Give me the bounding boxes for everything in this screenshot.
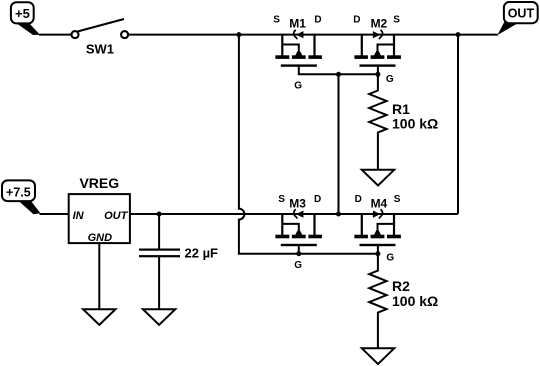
transistor M4 xyxy=(354,209,401,246)
junction node: lower rail to capacitor xyxy=(157,212,162,217)
resistor R1 xyxy=(369,74,386,170)
wire +7.5 to VREG IN xyxy=(40,213,69,215)
switch SW1 xyxy=(72,19,129,38)
wire M4 gate lead xyxy=(377,246,379,254)
ground below capacitor xyxy=(143,309,175,325)
svg-text:S: S xyxy=(393,14,400,25)
svg-text:G: G xyxy=(294,260,302,271)
junction node: M4 gate / R2 top xyxy=(375,251,380,256)
svg-text:VREG: VREG xyxy=(79,175,119,191)
svg-text:D: D xyxy=(314,14,321,25)
svg-text:+7.5: +7.5 xyxy=(6,185,31,199)
svg-text:100 kΩ: 100 kΩ xyxy=(392,293,438,309)
svg-text:G: G xyxy=(294,81,302,92)
net label +7.5 xyxy=(2,180,41,214)
wire M1 gate to M2 gate xyxy=(299,66,378,74)
transistor M2 xyxy=(354,30,401,67)
svg-text:OUT: OUT xyxy=(508,6,535,20)
junction node: top rail to output branch xyxy=(456,32,461,37)
svg-text:22 µF: 22 µF xyxy=(185,246,219,261)
junction node: gate wire to R1 xyxy=(375,72,380,77)
junction node: lower rail to M1/M2 gate wire xyxy=(336,212,341,217)
svg-text:IN: IN xyxy=(73,210,85,222)
svg-text:M2: M2 xyxy=(371,17,388,31)
net label +5 xyxy=(11,2,40,35)
resistor R2 xyxy=(369,254,386,349)
svg-text:D: D xyxy=(355,194,362,205)
ground below VREG xyxy=(83,309,115,325)
svg-text:D: D xyxy=(353,14,360,25)
wire M3 gate lead xyxy=(298,246,300,254)
junction node: top rail to M3/M4 gate dropper xyxy=(236,32,241,37)
svg-text:M4: M4 xyxy=(371,196,388,210)
svg-text:OUT: OUT xyxy=(104,210,129,222)
svg-text:M3: M3 xyxy=(289,196,306,210)
svg-text:S: S xyxy=(273,14,280,25)
wire +5 to SW1 xyxy=(39,34,72,36)
svg-text:G: G xyxy=(386,253,394,264)
junction node: gate wire to lower rail dropper xyxy=(336,72,341,77)
svg-text:GND: GND xyxy=(88,232,113,244)
transistor M1 xyxy=(275,30,322,67)
svg-text:S: S xyxy=(394,194,401,205)
svg-text:M1: M1 xyxy=(289,17,306,31)
capacitor C1 xyxy=(139,214,180,309)
ground below R2 xyxy=(362,348,394,364)
svg-text:100 kΩ: 100 kΩ xyxy=(392,116,438,132)
svg-text:S: S xyxy=(278,194,285,205)
junction node: M3 gate on gate wire xyxy=(296,251,301,256)
svg-text:D: D xyxy=(314,194,321,205)
svg-text:+5: +5 xyxy=(15,6,30,21)
svg-text:SW1: SW1 xyxy=(86,42,114,57)
svg-text:G: G xyxy=(386,74,394,85)
wire M1/M2 gates down to lower rail xyxy=(338,74,340,214)
transistor M3 xyxy=(275,209,322,246)
svg-text:R2: R2 xyxy=(392,278,410,294)
wire top rail SW1 to OUT xyxy=(128,34,498,36)
wire VREG GND to ground xyxy=(98,243,100,309)
wire top-rail dropper to M3/M4 gates (with hop over lower rail) xyxy=(239,35,378,254)
svg-text:R1: R1 xyxy=(392,101,410,117)
ground below R1 xyxy=(362,170,394,186)
wire lower rail VREG OUT to output branch xyxy=(130,213,459,215)
wire output branch (right vertical) xyxy=(457,35,459,214)
voltage regulator VREG box xyxy=(69,194,130,243)
net label OUT xyxy=(498,2,538,35)
